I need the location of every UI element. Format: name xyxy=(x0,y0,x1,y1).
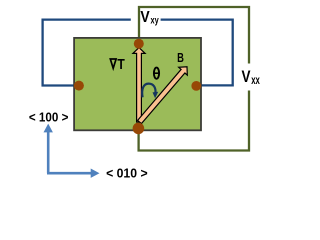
svg-text:xx: xx xyxy=(251,75,260,87)
angle theta arc arrow xyxy=(142,84,155,98)
sample green rectangle xyxy=(74,38,201,130)
label theta (drawn as ellipse+bar) xyxy=(154,68,159,79)
arrow gradient-T (vertical block arrow) xyxy=(133,48,145,122)
svg-text:< 100 >: < 100 > xyxy=(29,110,69,125)
contact bottom xyxy=(133,123,145,135)
contact top xyxy=(134,39,144,49)
contact left xyxy=(74,81,84,91)
svg-text:B: B xyxy=(177,50,184,65)
axis arrow horizontal <010> xyxy=(47,172,93,175)
wire blue Vxy loop right: label gap to top-right corner down to right contact xyxy=(161,20,233,86)
svg-text:V: V xyxy=(140,9,150,26)
axis arrow vertical <100> xyxy=(47,131,50,174)
svg-text:T: T xyxy=(117,56,124,73)
svg-text:V: V xyxy=(242,67,252,86)
wire olive Vxx loop lower: label gap down, across bottom, up to bottom contact xyxy=(139,91,249,151)
angle theta arc arrowhead xyxy=(153,92,159,99)
svg-text:< 010 >: < 010 > xyxy=(106,166,148,181)
svg-text:xy: xy xyxy=(151,15,160,26)
label nabla symbol of nabla-T xyxy=(110,59,116,68)
arrow B (diagonal block arrow) xyxy=(138,67,188,124)
wire blue Vxy loop left: left contact to top-left corner to label gap xyxy=(43,20,131,86)
wire olive Vxx loop upper: top contact up, across, down to label gap xyxy=(139,7,249,64)
contact right xyxy=(191,81,201,91)
